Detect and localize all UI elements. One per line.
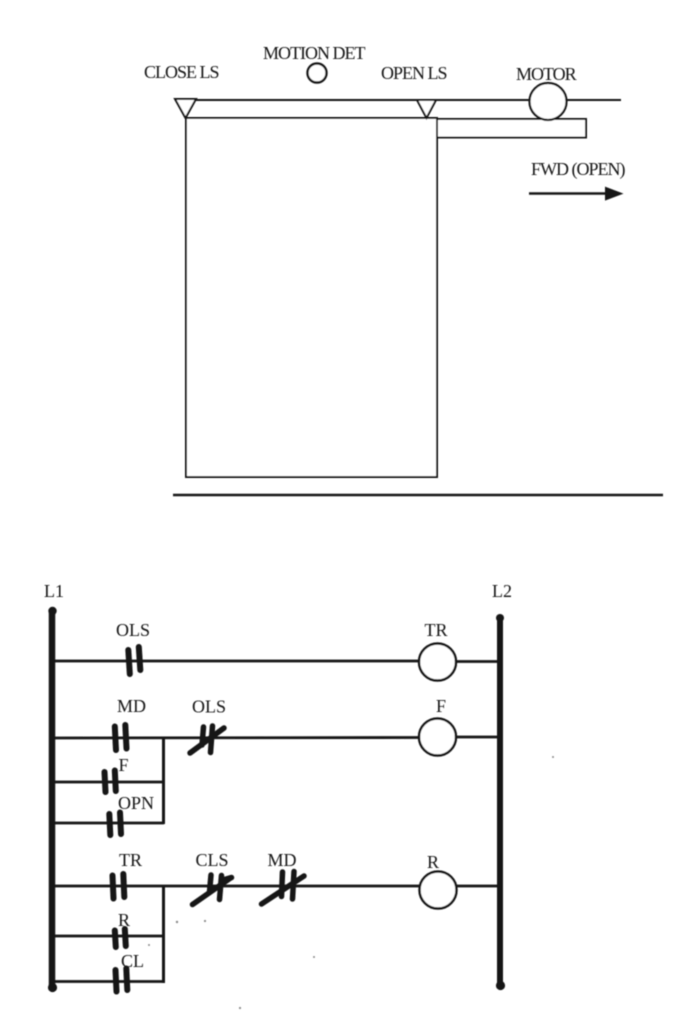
svg-text:FWD (OPEN): FWD (OPEN) [531,159,625,180]
svg-text:TR: TR [119,850,142,870]
svg-text:L2: L2 [492,581,512,601]
svg-text:R: R [427,852,439,872]
svg-text:OLS: OLS [192,697,226,717]
svg-text:R: R [118,910,130,930]
svg-text:MD: MD [267,850,296,870]
svg-text:MOTION DET: MOTION DET [263,43,365,63]
svg-text:L1: L1 [44,581,64,601]
svg-text:CL: CL [121,951,144,971]
svg-text:F: F [118,755,128,775]
svg-text:CLOSE LS: CLOSE LS [144,62,219,82]
svg-text:OPN: OPN [118,793,154,813]
svg-text:CLS: CLS [195,850,228,870]
svg-text:OLS: OLS [116,620,150,640]
svg-text:OPEN LS: OPEN LS [381,63,447,83]
svg-text:F: F [436,696,446,716]
svg-text:MD: MD [117,696,146,716]
svg-text:MOTOR: MOTOR [516,64,577,84]
svg-text:TR: TR [424,620,447,640]
